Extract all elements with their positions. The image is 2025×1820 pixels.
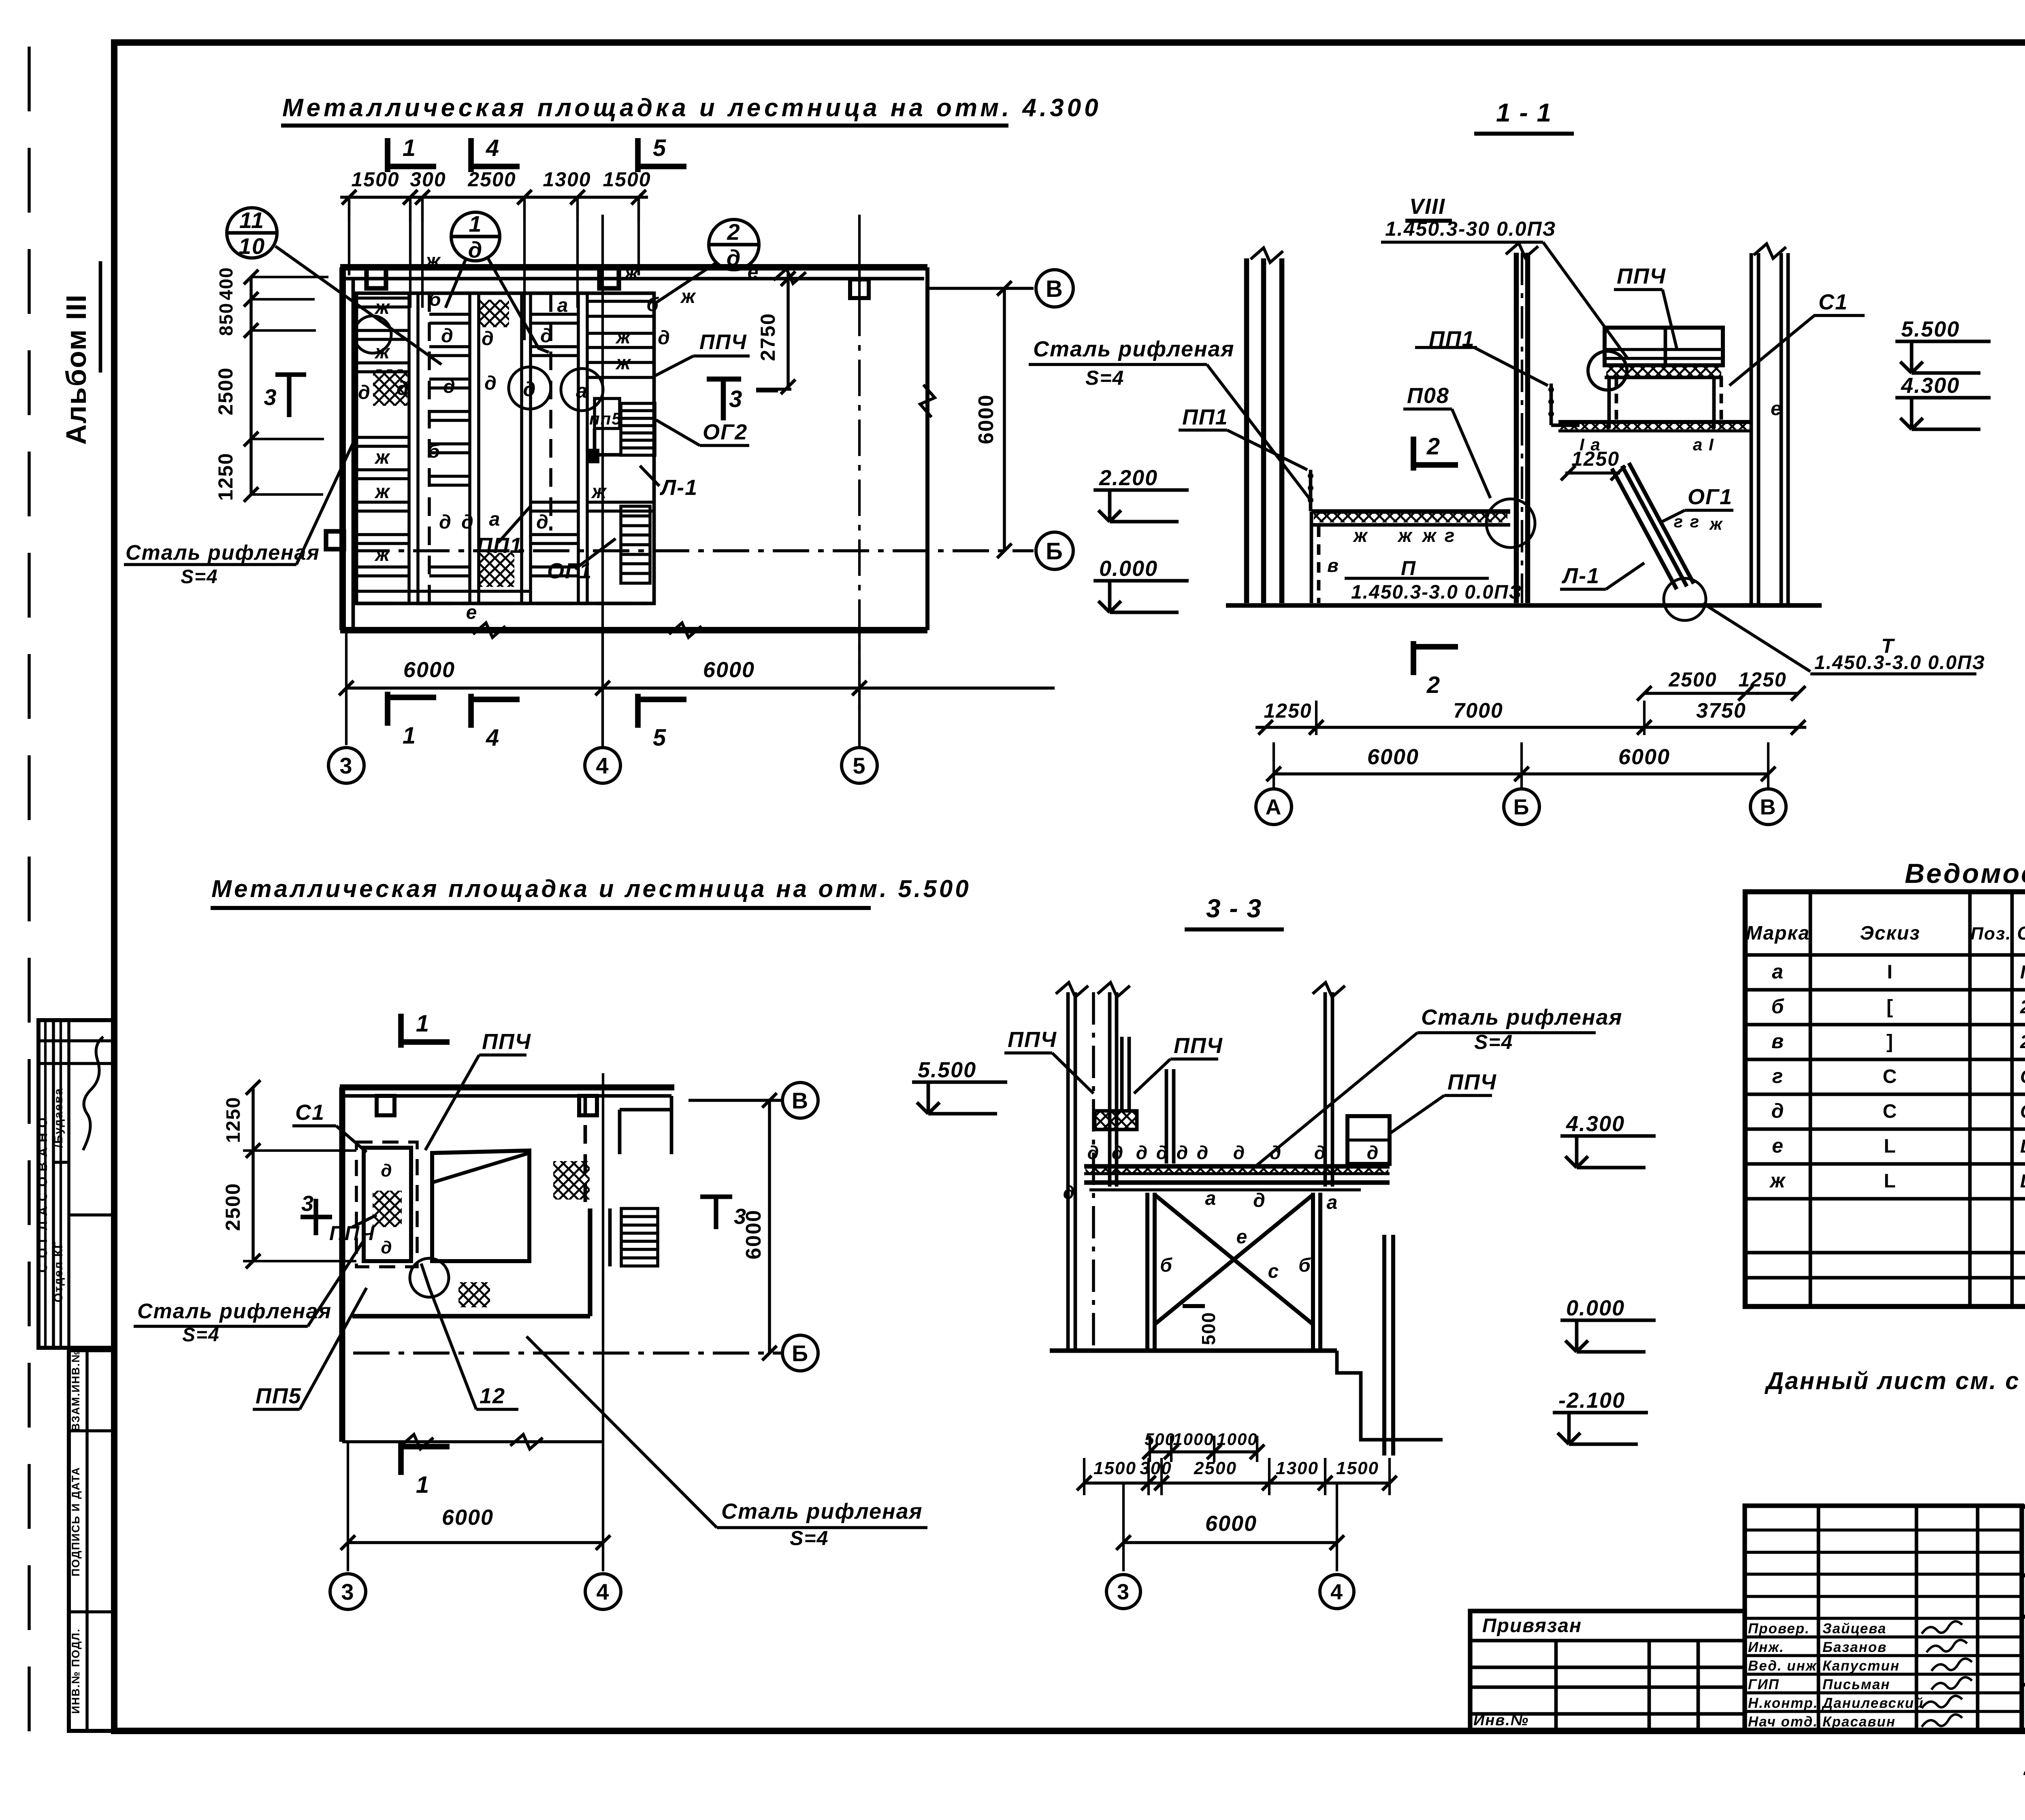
svg-text:1250: 1250: [1264, 699, 1312, 722]
svg-text:д: д: [1136, 1142, 1148, 1163]
svg-text:Марка: Марка: [1746, 923, 1810, 944]
svg-text:ж: ж: [590, 481, 607, 503]
section 1-1 ground: [1226, 603, 1822, 607]
section 1-1 upper platform ПП4: [1605, 328, 1723, 365]
svg-text:1250: 1250: [1738, 668, 1786, 691]
svg-text:1.450.3-3.0 0.0ПЗ: 1.450.3-3.0 0.0ПЗ: [1351, 582, 1522, 603]
plan 4.300 hatch patches: [480, 300, 509, 327]
plan 5.500 bottom: [342, 1440, 603, 1443]
svg-text:2: 2: [727, 219, 740, 245]
svg-text:Данилевский: Данилевский: [1821, 1695, 1924, 1711]
svg-text:ППЧ: ППЧ: [699, 330, 747, 354]
svg-text:5.500: 5.500: [918, 1058, 976, 1082]
section 1-1 ladder ОГ1: [1612, 469, 1677, 589]
section 2-2 left continuation column: [1750, 253, 1753, 605]
plan 4.300 T3 markers: [275, 372, 306, 377]
plan 4.300 wall column stubs: [367, 267, 386, 288]
svg-text:В: В: [792, 1088, 809, 1113]
svg-text:3: 3: [1117, 1580, 1130, 1604]
svg-text:д: д: [523, 378, 537, 401]
svg-text:ВЗАМ.ИНВ.№: ВЗАМ.ИНВ.№: [70, 1349, 82, 1431]
svg-text:д: д: [536, 511, 549, 533]
section 3-3 right column: [1324, 992, 1327, 1187]
svg-text:С О Г Л А С О В А Н О: С О Г Л А С О В А Н О: [35, 1117, 50, 1273]
svg-text:1500: 1500: [351, 168, 399, 191]
svg-text:6000: 6000: [703, 658, 755, 682]
svg-text:г: г: [1690, 512, 1700, 531]
svg-text:б: б: [646, 294, 659, 315]
plan 5.500 walls: [340, 1085, 674, 1091]
svg-text:д: д: [461, 511, 474, 533]
svg-text:ОГ2: ОГ2: [703, 420, 748, 444]
svg-text:е: е: [1771, 398, 1782, 420]
svg-text:1: 1: [416, 1472, 430, 1498]
plan 5.500 left dims: [252, 1087, 255, 1261]
svg-text:ж: ж: [1769, 1169, 1786, 1192]
plan 4.300 stairs: [621, 403, 655, 455]
plan 4.300 dim 2750: [787, 274, 790, 390]
svg-text:4: 4: [486, 135, 500, 161]
svg-text:ж: ж: [374, 297, 390, 318]
svg-text:Сталь рифленая: Сталь рифленая: [137, 1300, 332, 1323]
svg-text:6000: 6000: [974, 394, 998, 444]
svg-text:1: 1: [416, 1010, 430, 1037]
svg-text:д: д: [540, 325, 553, 347]
svg-text:1500: 1500: [603, 168, 651, 191]
svg-text:В: В: [1760, 795, 1777, 819]
svg-text:д: д: [1087, 1142, 1100, 1163]
table grid: [1745, 892, 2025, 1306]
svg-text:д: д: [1063, 1182, 1075, 1203]
svg-text:а: а: [576, 379, 588, 402]
svg-text:с: с: [1268, 1261, 1280, 1282]
svg-text:]: ]: [1886, 1031, 1894, 1053]
svg-text:2500: 2500: [1668, 668, 1717, 691]
svg-text:д: д: [381, 1161, 392, 1181]
svg-text:5.500: 5.500: [1901, 317, 1960, 341]
svg-text:е: е: [1236, 1226, 1248, 1248]
stamp: main right part: [2022, 1507, 2025, 1731]
svg-text:Состав: Состав: [2017, 923, 2025, 944]
svg-text:д: д: [484, 373, 497, 394]
svg-text:Металлическая площадка и лестн: Металлическая площадка и лестница на отм…: [282, 94, 1102, 122]
svg-text:С1: С1: [1818, 290, 1848, 314]
svg-text:VIII: VIII: [1409, 194, 1445, 219]
svg-text:1500: 1500: [1093, 1458, 1136, 1478]
svg-text:а I: а I: [1693, 435, 1714, 454]
section 1-1 left ПП1 post symbol: [1309, 470, 1313, 511]
svg-text:12: 12: [480, 1384, 505, 1408]
svg-text:Сталь рифленая: Сталь рифленая: [721, 1499, 923, 1524]
svg-text:С 14: С 14: [2020, 1101, 2025, 1122]
svg-text:11: 11: [239, 207, 264, 233]
svg-text:2С 14: 2С 14: [2020, 996, 2025, 1017]
svg-text:ППЧ: ППЧ: [1008, 1027, 1057, 1052]
svg-text:4: 4: [596, 1579, 610, 1605]
plan 4.300 leader circle 11/10: [227, 208, 277, 258]
plan 5.500 right upper region: [620, 1108, 671, 1112]
svg-text:1250: 1250: [1571, 448, 1620, 470]
svg-text:д: д: [1233, 1142, 1245, 1163]
svg-text:ж: ж: [680, 286, 696, 307]
svg-text:I 23 Ш1: I 23 Ш1: [2020, 961, 2025, 982]
stamp: привязан block: [1470, 1611, 1745, 1730]
svg-text:а: а: [1205, 1188, 1217, 1209]
svg-text:0.000: 0.000: [1099, 556, 1158, 581]
svg-text:4: 4: [596, 753, 609, 778]
plan 4.300 axis lines: [353, 549, 1034, 552]
svg-text:1000: 1000: [1217, 1430, 1258, 1449]
svg-text:ж: ж: [374, 481, 390, 503]
svg-text:Отдел КГ: Отдел КГ: [52, 1241, 65, 1302]
plan 4.300 bottom markers and dims: [385, 692, 390, 726]
svg-text:Ведомость элементов: Ведомость элементов: [1905, 858, 2025, 889]
section 3-3 upper small boxes: [1095, 1111, 1137, 1130]
section 3-3 ground and foundation: [1050, 1348, 1337, 1353]
svg-text:1300: 1300: [1276, 1458, 1319, 1478]
svg-text:2: 2: [1426, 433, 1441, 460]
plan 4.300 top dimension chain 1500 300 2500 1300 1500: [340, 196, 648, 199]
svg-text:С: С: [1883, 1066, 1898, 1087]
section 3-3 X bracing frame: [1145, 1193, 1149, 1351]
svg-text:Письман: Письман: [1823, 1677, 1890, 1692]
svg-text:6000: 6000: [1205, 1511, 1257, 1536]
section 1-1 mid column Б: [1514, 253, 1519, 603]
section 1-1 left column: [1244, 258, 1249, 603]
plan 4.300 leader circle 1/д: [451, 212, 500, 261]
svg-text:Данный лист см. с листами 6, 8: Данный лист см. с листами 6, 8.: [1764, 1367, 2025, 1394]
svg-text:400: 400: [215, 267, 237, 300]
svg-text:Базанов: Базанов: [1823, 1639, 1887, 1655]
section 1-1 section marks 2: [1411, 437, 1416, 471]
svg-text:Л-1: Л-1: [659, 475, 698, 500]
svg-text:Красавин: Красавин: [1823, 1714, 1896, 1730]
plan 4.300 leader circles small: [509, 367, 551, 409]
svg-text:2: 2: [1426, 672, 1441, 698]
svg-text:L50×5: L50×5: [2020, 1170, 2025, 1191]
svg-text:1.450.3-3.0 0.0ПЗ: 1.450.3-3.0 0.0ПЗ: [1814, 652, 1985, 673]
svg-text:д: д: [441, 325, 454, 347]
plan 5.500 axes: [782, 1083, 818, 1118]
svg-text:Провер.: Провер.: [1748, 1621, 1810, 1637]
svg-text:е: е: [748, 262, 759, 283]
svg-text:е: е: [1772, 1134, 1784, 1157]
svg-text:Сталь рифленая: Сталь рифленая: [1421, 1005, 1622, 1029]
plan 4.300 room right wall: [925, 267, 929, 630]
svg-text:6000: 6000: [442, 1505, 494, 1530]
svg-text:6000: 6000: [742, 1209, 765, 1260]
svg-text:4.300: 4.300: [1566, 1112, 1625, 1136]
section 1-1 right ПП1 post symbol: [1550, 384, 1553, 425]
svg-text:3: 3: [341, 1579, 354, 1605]
svg-text:S=4: S=4: [181, 566, 218, 588]
svg-text:а: а: [557, 295, 569, 316]
svg-text:7000: 7000: [1453, 699, 1503, 722]
svg-text:д: д: [1771, 1100, 1785, 1122]
svg-text:[: [: [1886, 996, 1894, 1018]
svg-text:д: д: [1156, 1142, 1168, 1163]
svg-text:д: д: [443, 376, 456, 397]
svg-text:в: в: [1771, 1030, 1784, 1053]
svg-text:3 - 3: 3 - 3: [1206, 894, 1262, 923]
svg-text:1: 1: [469, 211, 482, 237]
svg-text:Н.контр.: Н.контр.: [1748, 1695, 1818, 1711]
svg-text:б: б: [1771, 995, 1785, 1018]
svg-text:б: б: [428, 441, 441, 462]
svg-text:б: б: [429, 289, 442, 310]
svg-text:Зайцева: Зайцева: [1823, 1621, 1886, 1637]
svg-text:1250: 1250: [214, 452, 237, 501]
svg-text:д: д: [482, 328, 495, 350]
svg-text:Вед. инж: Вед. инж: [1748, 1658, 1817, 1674]
svg-text:е: е: [466, 602, 478, 623]
stamp: staff table: [1745, 1506, 2022, 1730]
svg-text:д: д: [1367, 1142, 1379, 1163]
plan 4.300 section markers top: [385, 138, 390, 172]
svg-text:С: С: [1883, 1101, 1898, 1122]
svg-text:д: д: [1177, 1142, 1189, 1163]
svg-text:1: 1: [403, 135, 416, 161]
svg-text:-2.100: -2.100: [1558, 1388, 1625, 1413]
plan 4.300 beam grid: [356, 293, 654, 603]
svg-text:д: д: [1253, 1190, 1266, 1211]
svg-text:д: д: [396, 378, 409, 399]
svg-text:ПП1: ПП1: [1182, 405, 1228, 429]
svg-text:5: 5: [853, 753, 866, 778]
plan 5.500 platform: [352, 1314, 590, 1318]
plan 4.300 пп5 box: [595, 399, 620, 428]
svg-text:ж: ж: [623, 262, 639, 284]
svg-text:пп5: пп5: [589, 409, 622, 428]
svg-text:П08: П08: [1407, 384, 1449, 408]
svg-text:Поз.: Поз.: [1970, 924, 2011, 944]
svg-text:1.450.3-30 0.0ПЗ: 1.450.3-30 0.0ПЗ: [1385, 217, 1556, 240]
svg-text:3750: 3750: [1696, 699, 1746, 722]
svg-text:2750: 2750: [757, 313, 779, 361]
svg-text:23091-03: 23091-03: [2023, 1752, 2025, 1781]
plan 5.500 big opening: [432, 1151, 529, 1261]
left stamp СОГЛАСОВАНО: [38, 1020, 114, 1348]
svg-text:Металлическая площадка и лестн: Металлическая площадка и лестница на отм…: [211, 875, 971, 902]
plan 5.500 hatches: [553, 1161, 590, 1200]
svg-text:ППЧ: ППЧ: [482, 1029, 531, 1054]
svg-text:Нач отд.: Нач отд.: [1748, 1714, 1818, 1730]
svg-text:2С 14: 2С 14: [2020, 1031, 2025, 1052]
svg-text:S=4: S=4: [1085, 367, 1124, 389]
svg-text:ж: ж: [1709, 514, 1723, 533]
plan 5.500 stair: [621, 1208, 658, 1266]
svg-text:5: 5: [653, 725, 667, 751]
svg-text:ж: ж: [424, 250, 441, 272]
svg-text:1 - 1: 1 - 1: [1496, 98, 1552, 127]
svg-text:Инв.№: Инв.№: [1473, 1712, 1529, 1729]
svg-text:I: I: [1887, 961, 1893, 983]
svg-text:д: д: [658, 327, 671, 349]
svg-text:ПП5: ПП5: [256, 1384, 302, 1408]
svg-text:S=4: S=4: [790, 1527, 829, 1549]
svg-text:б: б: [1298, 1255, 1311, 1276]
svg-text:500: 500: [1198, 1312, 1219, 1345]
svg-text:ППЧ: ППЧ: [1174, 1034, 1223, 1058]
svg-text:а: а: [1327, 1192, 1339, 1213]
svg-text:5: 5: [653, 135, 667, 161]
svg-text:3: 3: [729, 386, 743, 412]
svg-text:Сталь рифленая: Сталь рифленая: [126, 541, 320, 565]
svg-text:1300: 1300: [543, 168, 591, 191]
svg-text:3: 3: [264, 384, 277, 410]
svg-text:ППЧ: ППЧ: [1447, 1070, 1497, 1094]
svg-text:б: б: [1160, 1255, 1173, 1276]
svg-text:д: д: [1314, 1142, 1326, 1163]
svg-text:Альбом III: Альбом III: [60, 294, 92, 445]
svg-text:6000: 6000: [1618, 745, 1670, 769]
svg-text:ж: ж: [615, 352, 631, 374]
svg-text:Капустин: Капустин: [1823, 1658, 1900, 1674]
svg-text:6000: 6000: [1367, 745, 1419, 769]
svg-text:А: А: [1266, 795, 1282, 819]
svg-text:2500: 2500: [222, 1183, 244, 1231]
section 3-3 beam band: [1084, 1164, 1390, 1168]
plan 4.300 left vertical dims: [249, 277, 253, 494]
plan 4.300 right vertical dim 6000: [1003, 288, 1006, 551]
svg-text:300: 300: [410, 168, 446, 191]
section 3-3 left columns: [1066, 992, 1070, 1351]
svg-text:г: г: [1772, 1065, 1784, 1087]
plan 4.300 walls: [340, 264, 927, 271]
svg-text:д: д: [1197, 1142, 1209, 1163]
svg-text:д: д: [439, 511, 452, 533]
svg-text:Б: Б: [1046, 538, 1064, 565]
svg-text:ГИП: ГИП: [1748, 1677, 1780, 1692]
svg-text:ж: ж: [374, 447, 390, 468]
svg-text:2500: 2500: [467, 168, 516, 191]
svg-text:ж: ж: [1352, 525, 1368, 546]
svg-text:ППЧ: ППЧ: [1617, 264, 1666, 288]
svg-text:2.200: 2.200: [1099, 466, 1158, 490]
left stamp lower columns: [69, 1350, 114, 1731]
svg-text:4.300: 4.300: [1901, 373, 1960, 398]
svg-text:С 24: С 24: [2020, 1066, 2025, 1087]
svg-text:Сталь рифленая: Сталь рифленая: [1033, 337, 1234, 361]
plan 4.300 leader circle 2/д: [709, 220, 759, 270]
svg-text:Б: Б: [1513, 795, 1530, 819]
svg-text:ж: ж: [615, 326, 631, 348]
section 1-1 detail circle: [1486, 499, 1535, 548]
svg-text:ПП1: ПП1: [477, 533, 523, 558]
svg-text:П: П: [1401, 557, 1416, 580]
svg-text:а: а: [1772, 960, 1784, 983]
svg-text:1250: 1250: [223, 1097, 244, 1143]
svg-text:L: L: [1884, 1170, 1896, 1192]
plan 5.500 small platform left: [364, 1148, 411, 1261]
plan 5.500 T3 right: [700, 1194, 732, 1199]
svg-text:Привязан: Привязан: [1482, 1615, 1582, 1637]
svg-text:1500: 1500: [1336, 1458, 1379, 1478]
svg-text:ж: ж: [374, 341, 390, 363]
svg-text:д: д: [1112, 1142, 1124, 1163]
svg-text:6000: 6000: [403, 658, 455, 682]
svg-text:г: г: [1445, 525, 1456, 546]
svg-text:а: а: [489, 509, 501, 530]
section 3-3 ППЧ box right: [1347, 1116, 1390, 1164]
svg-text:Инж.: Инж.: [1748, 1639, 1784, 1655]
svg-text:0.000: 0.000: [1566, 1296, 1625, 1320]
svg-text:4: 4: [1330, 1580, 1343, 1604]
svg-text:д: д: [358, 382, 371, 403]
svg-text:д: д: [381, 1238, 392, 1257]
svg-text:ПОДПИСЬ И ДАТА: ПОДПИСЬ И ДАТА: [70, 1466, 82, 1576]
svg-text:850: 850: [215, 303, 237, 336]
svg-text:ИНВ.№ ПОДЛ.: ИНВ.№ ПОДЛ.: [70, 1628, 82, 1713]
svg-text:Л-1: Л-1: [1561, 564, 1600, 588]
svg-text:Эскиз: Эскиз: [1860, 923, 1920, 944]
svg-text:2500: 2500: [1194, 1458, 1237, 1478]
svg-text:д: д: [468, 237, 483, 262]
svg-text:3: 3: [301, 1191, 314, 1216]
plan 4.300 axis lines 4 and 5 inside plan: [601, 215, 604, 748]
svg-text:Б: Б: [792, 1340, 809, 1366]
section 1-1 platform 2.200: [1311, 509, 1510, 514]
svg-text:2500: 2500: [214, 367, 237, 415]
svg-text:С1: С1: [295, 1100, 325, 1125]
svg-text:4: 4: [486, 725, 500, 751]
svg-text:в: в: [1327, 555, 1339, 576]
svg-text:L75×6: L75×6: [2020, 1136, 2025, 1157]
svg-text:ж: ж: [374, 544, 390, 565]
svg-text:3: 3: [339, 753, 353, 778]
svg-text:ППЧ: ППЧ: [329, 1222, 375, 1245]
svg-text:ОГ1: ОГ1: [1688, 485, 1733, 509]
svg-text:ж: ж: [1397, 525, 1413, 546]
svg-text:10: 10: [239, 233, 265, 259]
svg-text:В: В: [1046, 276, 1064, 302]
svg-text:/Будаева: /Будаева: [52, 1088, 65, 1148]
svg-text:L: L: [1884, 1136, 1896, 1157]
svg-text:1: 1: [403, 722, 416, 749]
svg-text:ж: ж: [1421, 525, 1437, 546]
